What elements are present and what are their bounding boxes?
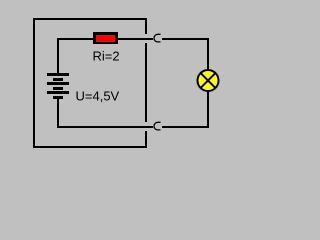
- wire battery negative lead down: [57, 96, 59, 128]
- battery cell plates U=4,5V source: [47, 73, 69, 99]
- wire top horizontal battery to terminal through resistor: [57, 38, 153, 40]
- resistor Ri: [93, 32, 118, 44]
- wire battery positive lead up: [57, 38, 59, 74]
- wire bottom right terminal to lamp: [162, 126, 209, 128]
- wire lamp top lead: [207, 38, 209, 70]
- wire top right terminal to lamp: [162, 38, 209, 40]
- lamp L1 (circle with cross): [198, 70, 219, 91]
- battery box outline (real battery model enclosure): [33, 18, 147, 148]
- svg-text:Ri=2: Ri=2: [93, 49, 120, 64]
- terminal connector top (open socket): [154, 34, 161, 42]
- svg-text:U=4,5V: U=4,5V: [76, 89, 120, 104]
- wire bottom horizontal battery to terminal: [57, 126, 153, 128]
- wire lamp bottom lead: [207, 91, 209, 128]
- terminal connector bottom (open socket): [154, 122, 161, 130]
